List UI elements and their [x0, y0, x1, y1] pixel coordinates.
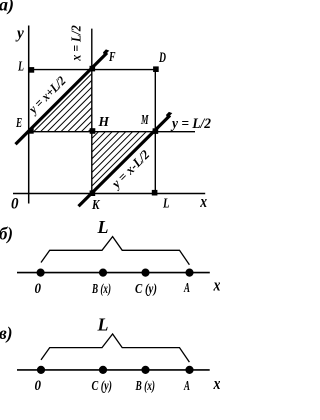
svg-text:L: L: [162, 196, 169, 211]
arrowhead of y=x+L/2: [103, 49, 109, 56]
point A б: [185, 269, 193, 277]
brace б: [41, 237, 189, 265]
svg-text:0: 0: [11, 195, 19, 212]
svg-text:A: A: [183, 281, 190, 296]
svg-text:x: x: [213, 275, 220, 294]
horizontal line y=L: [29, 69, 156, 71]
point L on x-axis: [152, 190, 158, 196]
point B б: [99, 269, 107, 277]
svg-text:F: F: [108, 50, 116, 65]
point E: [28, 128, 34, 134]
svg-text:в): в): [0, 323, 13, 344]
point O в: [37, 366, 45, 374]
hatched triangle HMK: [92, 132, 146, 186]
svg-text:B (x): B (x): [91, 282, 111, 297]
vertical line x=L: [154, 70, 156, 194]
point K: [90, 190, 96, 196]
svg-text:A: A: [183, 379, 190, 394]
svg-text:a): a): [0, 0, 14, 16]
svg-text:y: y: [15, 25, 25, 42]
svg-text:L: L: [17, 59, 24, 74]
svg-text:C (y): C (y): [92, 379, 113, 394]
point M: [153, 128, 159, 134]
point C в: [99, 366, 107, 374]
number line б: [17, 272, 210, 274]
svg-text:0: 0: [35, 281, 42, 297]
svg-text:y = L/2: y = L/2: [170, 116, 211, 132]
y-axis: [28, 26, 30, 204]
svg-text:x: x: [213, 374, 220, 393]
svg-text:L: L: [97, 217, 109, 237]
svg-text:x = L/2: x = L/2: [69, 25, 84, 61]
arrowhead of y=x-L/2: [166, 112, 172, 119]
point A в: [185, 366, 193, 374]
vertical line x=L/2: [91, 29, 93, 194]
diagonal line y=x+L/2: [16, 53, 108, 144]
number line в: [17, 369, 210, 371]
svg-text:E: E: [15, 116, 22, 131]
point F: [90, 66, 96, 72]
svg-text:B (x): B (x): [135, 379, 155, 394]
svg-text:б): б): [0, 224, 13, 245]
svg-text:D: D: [158, 50, 166, 66]
point L on y-axis: [29, 67, 35, 73]
point H: [90, 128, 96, 134]
horizontal line y=L/2: [29, 131, 195, 133]
hatched triangle EFH: [34, 74, 92, 132]
x-axis: [13, 193, 205, 195]
brace в: [41, 334, 189, 362]
point C б: [141, 269, 149, 277]
svg-text:L: L: [97, 315, 109, 335]
diagonal line y=x-L/2: [79, 115, 171, 206]
svg-text:0: 0: [35, 378, 42, 394]
svg-text:K: K: [91, 198, 101, 213]
svg-text:H: H: [98, 115, 111, 130]
point B в: [141, 366, 149, 374]
point D: [153, 66, 159, 72]
svg-text:x: x: [200, 192, 208, 211]
point O б: [37, 269, 45, 277]
svg-text:C (y): C (y): [135, 282, 157, 297]
svg-text:M: M: [140, 113, 148, 128]
